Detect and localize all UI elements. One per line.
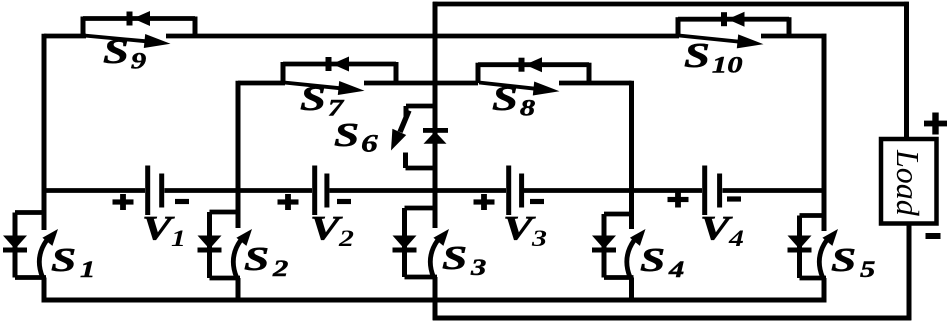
switch S2 — [198, 187, 289, 303]
wire: S8 row bus right segment — [559, 81, 632, 86]
diode of S6 (on center rail, pointing up) — [423, 128, 448, 133]
diode of S9 (on bypass loop, pointing left) — [127, 12, 133, 26]
svg-text:3: 3 — [470, 255, 486, 280]
wire: S2 top contact stub — [236, 187, 241, 228]
wire: S3 bypass loop — [405, 206, 436, 211]
svg-text:2: 2 — [272, 256, 288, 281]
battery V4 — [668, 166, 744, 252]
switch blade of S2 (curved arrow) — [233, 241, 240, 278]
label: + of V1 — [113, 199, 134, 204]
switch S8 — [478, 57, 589, 120]
battery V1 long (+) plate — [145, 166, 150, 216]
wire: S9 bypass loop — [83, 16, 195, 21]
label: - terminal of load — [926, 233, 941, 239]
svg-text:S: S — [244, 239, 269, 277]
diode of S5 (on bypass loop, pointing down) — [788, 236, 812, 250]
wire: S6 bypass loop bottom — [403, 153, 408, 169]
svg-text:2: 2 — [338, 225, 354, 251]
wire: S2 bypass loop — [210, 210, 239, 215]
label: - of V2 — [337, 199, 351, 204]
svg-text:V: V — [142, 209, 175, 247]
switch blade of S4 (curved arrow) — [627, 241, 634, 278]
switch blade of S8 (arrow) — [479, 83, 540, 90]
wire: S6 bypass loop top — [406, 104, 435, 109]
wire: bottom bus linking S1..S5 — [42, 298, 827, 303]
diode of S8 (on bypass loop, pointing left) — [519, 58, 525, 72]
wire: S7 row bus right segment — [364, 81, 435, 86]
switch blade of S10 (arrow) — [679, 36, 744, 43]
wire: S5 bypass loop — [800, 213, 825, 218]
battery V2 short (-) plate — [324, 174, 329, 208]
svg-text:S: S — [103, 32, 129, 71]
svg-text:9: 9 — [131, 48, 147, 73]
label: + of V4 — [668, 197, 689, 202]
wire: S9/S10 row bus middle segment — [166, 34, 679, 39]
svg-text:Load: Load — [890, 149, 926, 217]
svg-text:10: 10 — [712, 52, 743, 77]
wire: S7 row bus left segment — [238, 81, 285, 86]
label: + terminal of load — [924, 121, 947, 127]
svg-text:1: 1 — [171, 225, 186, 251]
svg-text:4: 4 — [728, 225, 744, 251]
wire: left rail (S9 row down to S1) — [42, 34, 47, 230]
wire: load bottom to bottom return bus — [907, 223, 912, 320]
wire: S10 bypass loop — [678, 17, 789, 22]
svg-text:S: S — [640, 240, 665, 278]
wire: S3 top contact stub — [433, 183, 438, 228]
switch S6 — [334, 106, 448, 168]
battery V4 short (-) plate — [717, 174, 722, 208]
wire: S5 top contact stub — [822, 191, 827, 229]
svg-text:S: S — [492, 79, 518, 118]
switch S7 — [283, 57, 396, 121]
switch blade of S6 (arrow pointing down-left) — [400, 111, 409, 133]
svg-text:S: S — [831, 240, 856, 278]
svg-text:S: S — [442, 238, 467, 276]
svg-text:V: V — [700, 209, 733, 247]
switch blade of S9 (arrow) — [84, 36, 151, 42]
switch S4 — [592, 189, 684, 303]
switch blade of S5 (curved arrow) — [819, 241, 826, 278]
svg-text:6: 6 — [361, 130, 378, 157]
switch blade of S7 (arrow) — [284, 83, 345, 89]
wire: S3 bottom contact stub — [433, 277, 438, 303]
switch S3 — [393, 183, 487, 303]
load box — [881, 139, 937, 224]
wire: main battery bus segment 2 — [164, 188, 312, 193]
svg-text:3: 3 — [531, 225, 547, 251]
switch S1 — [3, 188, 95, 303]
wire: S5 bottom contact stub — [822, 278, 827, 303]
label: - of V3 — [530, 199, 544, 204]
wire: S1 bottom contact stub — [42, 278, 47, 303]
svg-text:V: V — [503, 209, 536, 247]
battery V1 — [113, 166, 190, 252]
switch S9 — [83, 11, 195, 74]
wire: bottom return bus — [433, 316, 912, 321]
wire: main battery bus segment 3 — [329, 188, 506, 193]
diode of S10 (on bypass loop, pointing left) — [721, 12, 727, 26]
svg-text:V: V — [310, 209, 343, 247]
wire: S4 top contact stub — [629, 189, 634, 228]
diode of S7 (on bypass loop, pointing left) — [326, 57, 332, 71]
wire: right rail down to load top — [904, 2, 909, 141]
wire: S1 bypass loop — [15, 210, 44, 215]
diode of S1 (on bypass loop, pointing down) — [3, 236, 27, 250]
label: - of V1 — [175, 199, 189, 204]
diode of S3 (on bypass loop, pointing down) — [393, 236, 417, 250]
wire: main battery bus segment 4 — [524, 188, 702, 193]
switch S5 — [788, 191, 876, 303]
svg-text:8: 8 — [520, 95, 536, 120]
wire: S1 top contact stub — [42, 188, 47, 229]
wire: center rail upper segment (top bus to S3) — [433, 2, 438, 224]
battery V1 short (-) plate — [159, 174, 164, 208]
switch S10 — [678, 12, 789, 78]
svg-text:1: 1 — [80, 257, 95, 282]
wire: S9/S10 row bus left segment — [44, 34, 86, 39]
battery V2 long (+) plate — [312, 166, 317, 216]
battery V3 — [474, 166, 547, 252]
wire: main battery bus segment 1 — [44, 188, 145, 193]
switch blade of S3 (curved arrow) — [430, 241, 437, 278]
wire: rail D (S8 row down to S4) — [629, 81, 634, 229]
svg-text:S: S — [300, 79, 326, 118]
svg-text:4: 4 — [668, 257, 684, 282]
wire: rail E (S10 row down to S5) — [822, 34, 827, 231]
battery V3 long (+) plate — [506, 166, 511, 216]
wire: center rail lower segment (S3 to return bus) — [433, 277, 438, 320]
svg-text:S: S — [334, 115, 359, 153]
wire: S4 bottom contact stub — [629, 278, 634, 303]
battery V3 short (-) plate — [519, 174, 524, 208]
wire: main battery bus segment 5 — [722, 188, 826, 193]
label: + of V3 — [474, 199, 495, 204]
wire: S8 row bus left segment — [435, 81, 478, 86]
battery V4 long (+) plate — [702, 166, 707, 216]
diode of S2 (on bypass loop, pointing down) — [198, 236, 222, 250]
wire: S4 bypass loop — [604, 212, 632, 217]
wire: S2 bottom contact stub — [236, 278, 241, 303]
svg-text:5: 5 — [860, 257, 875, 282]
wire: rail B (S7 row down to S2) — [236, 81, 241, 228]
label: + of V2 — [278, 199, 299, 204]
diode of S4 (on bypass loop, pointing down) — [592, 236, 616, 250]
battery V2 — [278, 166, 354, 252]
switch blade of S1 (curved arrow) — [39, 241, 46, 278]
wire: S9/S10 row bus right segment — [761, 34, 826, 39]
label: - of V4 — [727, 196, 741, 201]
svg-text:S: S — [51, 240, 76, 278]
svg-text:S: S — [684, 36, 710, 75]
wire: top bus (center rail to load plus terminal) — [433, 2, 909, 7]
wire: S7 bypass loop — [283, 62, 396, 67]
wire: S8 bypass loop — [478, 62, 589, 67]
